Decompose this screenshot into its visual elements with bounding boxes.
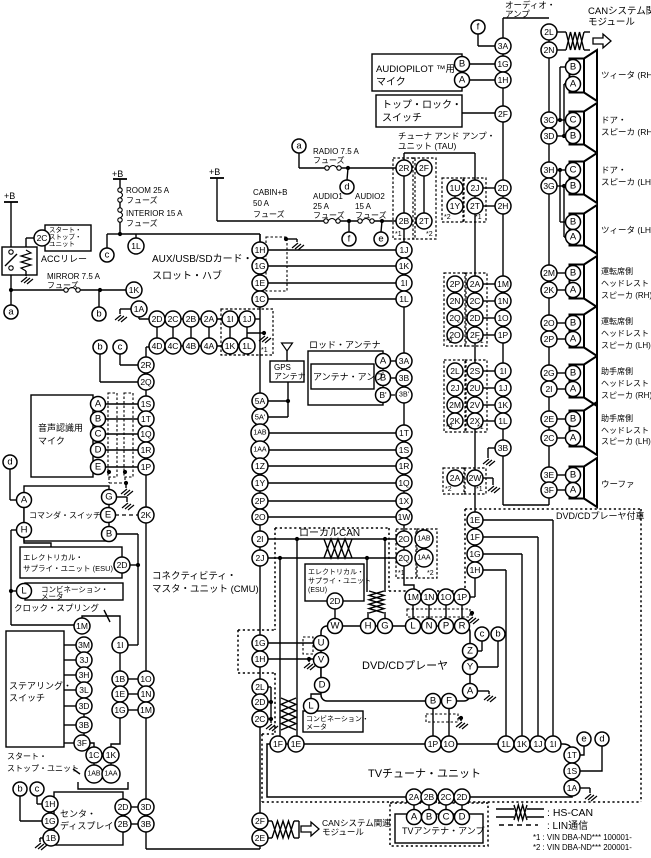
svg-text:ステアリング・: ステアリング・ — [9, 680, 72, 691]
svg-text:2P: 2P — [255, 496, 266, 506]
svg-text:2C: 2C — [544, 433, 555, 443]
svg-text:C: C — [95, 429, 102, 440]
svg-text:2R: 2R — [399, 163, 410, 173]
svg-text:: LIN通信: : LIN通信 — [547, 820, 588, 832]
svg-text:2B: 2B — [399, 216, 410, 226]
svg-text:B': B' — [379, 390, 387, 400]
svg-text:フューズ: フューズ — [355, 210, 387, 220]
svg-text:2S: 2S — [470, 366, 481, 376]
svg-text:1S: 1S — [399, 445, 410, 455]
svg-text:ドア・: ドア・ — [601, 165, 627, 175]
svg-text:音声認識用: 音声認識用 — [38, 422, 83, 433]
svg-text:2D: 2D — [498, 183, 509, 193]
svg-text:1Y: 1Y — [450, 201, 461, 211]
svg-text:4D: 4D — [152, 341, 163, 351]
svg-text:15 A: 15 A — [355, 202, 372, 211]
svg-text:2Q: 2Q — [140, 377, 152, 387]
svg-text:1M: 1M — [140, 705, 152, 715]
svg-text:D: D — [319, 680, 326, 691]
svg-text:アンテナ・アンプ: アンテナ・アンプ — [313, 372, 384, 382]
svg-text:*1: *1 — [477, 338, 484, 345]
svg-text:フューズ: フューズ — [126, 195, 158, 205]
svg-text:b: b — [96, 309, 101, 320]
svg-text:1O: 1O — [440, 592, 452, 602]
svg-text:1P: 1P — [141, 462, 152, 472]
svg-text:1C: 1C — [89, 750, 100, 760]
svg-text:2A: 2A — [470, 279, 481, 289]
svg-text:3D: 3D — [141, 802, 152, 812]
svg-text:2A: 2A — [204, 314, 215, 324]
svg-text:G: G — [381, 621, 388, 632]
svg-text:c: c — [480, 629, 485, 640]
svg-text:マイク: マイク — [376, 76, 406, 88]
svg-text:B: B — [430, 696, 436, 707]
svg-text:2D: 2D — [118, 802, 129, 812]
svg-text:2D: 2D — [117, 560, 128, 570]
svg-text:3M: 3M — [78, 640, 90, 650]
svg-text:メータ: メータ — [306, 722, 327, 731]
svg-text:2K: 2K — [141, 510, 152, 520]
svg-text:3G: 3G — [543, 181, 554, 191]
svg-text:ウーファ: ウーファ — [601, 479, 635, 489]
svg-text:A: A — [21, 495, 28, 506]
svg-text:c: c — [118, 342, 123, 353]
svg-text:2C: 2C — [441, 792, 452, 802]
svg-text:50 A: 50 A — [253, 199, 270, 208]
svg-text:1AA: 1AA — [253, 447, 267, 454]
svg-text:2O: 2O — [543, 318, 555, 328]
svg-text:: HS-CAN: : HS-CAN — [547, 807, 593, 819]
svg-text:フューズ: フューズ — [126, 218, 158, 228]
svg-text:2J: 2J — [451, 383, 460, 393]
svg-text:マスタ・ユニット (CMU): マスタ・ユニット (CMU) — [152, 584, 259, 595]
svg-text:1G: 1G — [469, 549, 480, 559]
svg-text:トップ・ロック・: トップ・ロック・ — [382, 99, 462, 111]
svg-text:1G: 1G — [114, 705, 125, 715]
svg-text:エレクトリカル・: エレクトリカル・ — [308, 568, 364, 576]
svg-text:3L: 3L — [79, 685, 89, 695]
svg-text:コンビネーション・: コンビネーション・ — [306, 714, 369, 723]
svg-text:C: C — [570, 165, 577, 176]
svg-text:1I: 1I — [400, 278, 407, 288]
svg-text:1E: 1E — [255, 278, 266, 288]
svg-text:ROOM 25 A: ROOM 25 A — [126, 186, 170, 195]
svg-text:B: B — [426, 812, 432, 823]
svg-text:助手席側: 助手席側 — [601, 413, 633, 423]
svg-text:1T: 1T — [399, 428, 409, 438]
svg-text:1I: 1I — [226, 314, 233, 324]
svg-text:*2: *2 — [444, 214, 451, 221]
svg-text:W: W — [331, 621, 340, 632]
svg-text:1E: 1E — [291, 739, 302, 749]
svg-text:RADIO 7.5 A: RADIO 7.5 A — [313, 147, 359, 156]
svg-text:3E: 3E — [544, 470, 555, 480]
svg-text:L: L — [410, 621, 415, 632]
svg-text:A: A — [95, 399, 102, 410]
svg-text:b: b — [97, 342, 102, 353]
svg-text:3F: 3F — [77, 738, 87, 748]
svg-text:ヘッドレスト・: ヘッドレスト・ — [601, 329, 651, 338]
svg-text:+B: +B — [4, 191, 15, 201]
svg-text:*2: *2 — [426, 231, 433, 238]
svg-text:フューズ: フューズ — [313, 210, 345, 220]
svg-text:MIRROR 7.5 A: MIRROR 7.5 A — [47, 272, 101, 281]
svg-text:スロット・ハブ: スロット・ハブ — [152, 269, 222, 282]
svg-text:1I: 1I — [116, 640, 123, 650]
svg-text:A: A — [570, 285, 577, 296]
svg-text:2T: 2T — [419, 216, 429, 226]
svg-text:2A: 2A — [409, 792, 420, 802]
svg-text:C: C — [443, 812, 450, 823]
svg-text:*2: *2 — [445, 486, 452, 493]
svg-text:エレクトリカル・: エレクトリカル・ — [23, 553, 83, 562]
svg-text:*2: *2 — [427, 570, 434, 577]
svg-text:*1: *1 — [476, 486, 483, 493]
svg-text:H: H — [365, 621, 372, 632]
svg-text:B: B — [570, 131, 576, 142]
svg-text:B: B — [570, 368, 576, 379]
svg-text:助手席側: 助手席側 — [601, 366, 633, 376]
svg-text:c: c — [35, 784, 40, 795]
svg-text:スタート・: スタート・ — [7, 752, 47, 761]
svg-text:A: A — [459, 75, 466, 86]
svg-text:1F: 1F — [273, 739, 283, 749]
svg-text:1I: 1I — [549, 739, 556, 749]
svg-text:1H: 1H — [45, 799, 56, 809]
svg-text:DVD/CDプレーヤ: DVD/CDプレーヤ — [362, 659, 448, 672]
svg-text:1S: 1S — [141, 399, 152, 409]
svg-text:1AA: 1AA — [104, 771, 118, 778]
svg-text:サプライ・ユニット (ESU): サプライ・ユニット (ESU) — [23, 564, 114, 573]
svg-text:クロック・スプリング: クロック・スプリング — [14, 603, 99, 613]
svg-text:1P: 1P — [457, 592, 468, 602]
svg-text:2F: 2F — [255, 816, 265, 826]
svg-text:1AA: 1AA — [417, 555, 431, 562]
svg-text:2P: 2P — [544, 334, 555, 344]
svg-text:1G: 1G — [497, 59, 508, 69]
svg-text:2H: 2H — [498, 201, 509, 211]
svg-text:4A: 4A — [204, 341, 215, 351]
svg-text:H: H — [21, 525, 28, 536]
svg-text:ヘッドレスト・: ヘッドレスト・ — [601, 426, 651, 435]
svg-text:1L: 1L — [498, 416, 508, 426]
svg-text:4B: 4B — [186, 341, 197, 351]
svg-text:フューズ: フューズ — [47, 280, 79, 290]
svg-text:2I: 2I — [256, 534, 263, 544]
svg-text:2Q: 2Q — [449, 313, 461, 323]
svg-text:1P: 1P — [428, 739, 439, 749]
svg-text:B: B — [570, 414, 576, 425]
svg-text:ストップ・ユニット: ストップ・ユニット — [7, 764, 79, 773]
svg-text:2N: 2N — [450, 296, 461, 306]
svg-text:1O: 1O — [497, 313, 509, 323]
svg-text:1M: 1M — [76, 621, 88, 631]
svg-text:E: E — [95, 462, 101, 473]
svg-text:3H: 3H — [79, 670, 90, 680]
svg-text:1P: 1P — [498, 330, 509, 340]
svg-text:AUDIO2: AUDIO2 — [355, 192, 385, 201]
svg-text:スピーカ (RH): スピーカ (RH) — [601, 391, 651, 400]
svg-text:1H: 1H — [255, 654, 266, 664]
svg-text:1T: 1T — [141, 414, 151, 424]
svg-text:1L: 1L — [242, 341, 252, 351]
svg-text:E: E — [105, 510, 111, 521]
svg-text:*2 : VIN DBA-ND*** 200001-: *2 : VIN DBA-ND*** 200001- — [533, 843, 632, 852]
svg-text:2D: 2D — [470, 313, 481, 323]
svg-text:B: B — [570, 217, 576, 228]
svg-text:コマンダ・スイッチ: コマンダ・スイッチ — [29, 510, 101, 520]
svg-text:1G: 1G — [254, 638, 265, 648]
svg-text:4C: 4C — [168, 341, 179, 351]
svg-text:ローカルCAN: ローカルCAN — [299, 527, 360, 539]
svg-text:3F: 3F — [544, 485, 554, 495]
svg-text:3A: 3A — [399, 356, 410, 366]
svg-text:CANシステム関連: CANシステム関連 — [588, 5, 651, 17]
svg-text:2W: 2W — [469, 473, 482, 483]
svg-text:スイッチ: スイッチ — [9, 693, 45, 703]
svg-text:2I: 2I — [545, 384, 552, 394]
svg-text:2J: 2J — [471, 183, 480, 193]
svg-text:1K: 1K — [399, 261, 410, 271]
svg-text:B: B — [95, 414, 101, 425]
svg-text:a: a — [296, 141, 302, 152]
svg-text:2R: 2R — [141, 360, 152, 370]
svg-text:1L: 1L — [131, 241, 141, 251]
svg-text:2Q: 2Q — [398, 553, 410, 563]
svg-text:1Z: 1Z — [255, 461, 265, 471]
svg-text:C: C — [570, 115, 577, 126]
svg-text:ディスプレイ: ディスプレイ — [60, 820, 113, 831]
svg-text:F: F — [446, 696, 452, 707]
svg-text:1F: 1F — [470, 532, 480, 542]
svg-text:1K: 1K — [225, 341, 236, 351]
svg-text:ツィータ (RH): ツィータ (RH) — [601, 70, 651, 80]
svg-text:2E: 2E — [544, 414, 555, 424]
svg-text:1M: 1M — [497, 279, 509, 289]
svg-text:d: d — [599, 734, 604, 745]
svg-text:スピーカ (LH): スピーカ (LH) — [601, 341, 651, 350]
svg-text:*1: *1 — [398, 570, 405, 577]
svg-text:2D: 2D — [457, 792, 468, 802]
svg-text:AUDIOPILOT ™用: AUDIOPILOT ™用 — [376, 64, 455, 75]
svg-text:P: P — [443, 621, 449, 632]
svg-text:5A': 5A' — [255, 413, 266, 422]
svg-text:1E: 1E — [115, 689, 126, 699]
svg-text:GPS: GPS — [274, 363, 291, 372]
svg-text:2M: 2M — [543, 268, 555, 278]
svg-text:フューズ: フューズ — [313, 155, 345, 165]
svg-text:1R: 1R — [141, 445, 152, 455]
svg-text:2D: 2D — [152, 314, 163, 324]
svg-text:1K: 1K — [106, 750, 117, 760]
svg-text:L: L — [21, 586, 26, 597]
svg-text:2T: 2T — [470, 201, 480, 211]
svg-text:A: A — [467, 686, 474, 697]
svg-text:3D: 3D — [79, 701, 90, 711]
svg-text:f: f — [477, 22, 480, 33]
svg-text:ユニット (TAU): ユニット (TAU) — [398, 141, 457, 151]
svg-text:(ESU): (ESU) — [308, 587, 327, 594]
svg-text:L: L — [308, 701, 313, 712]
svg-text:1O: 1O — [140, 674, 152, 684]
svg-text:B: B — [459, 59, 465, 70]
svg-text:1Q: 1Q — [140, 429, 152, 439]
svg-text:2U: 2U — [470, 383, 481, 393]
svg-text:3B: 3B — [141, 819, 152, 829]
svg-text:センタ・: センタ・ — [60, 809, 96, 819]
svg-text:1E: 1E — [470, 515, 481, 525]
svg-text:ACCリレー: ACCリレー — [41, 254, 87, 264]
svg-text:B: B — [570, 62, 576, 73]
svg-text:2M: 2M — [449, 400, 461, 410]
svg-text:INTERIOR 15 A: INTERIOR 15 A — [126, 209, 183, 218]
svg-text:メータ: メータ — [41, 592, 64, 601]
svg-text:1J: 1J — [243, 314, 252, 324]
svg-text:A: A — [570, 433, 577, 444]
svg-text:R: R — [459, 621, 466, 632]
svg-text:b: b — [17, 784, 22, 795]
svg-text:*1: *1 — [477, 424, 484, 431]
svg-text:1U: 1U — [450, 183, 461, 193]
svg-text:Y: Y — [467, 662, 474, 673]
svg-text:V: V — [318, 655, 325, 666]
svg-text:2P: 2P — [450, 279, 461, 289]
svg-text:*1: *1 — [261, 347, 268, 354]
svg-text:2B: 2B — [424, 792, 435, 802]
svg-text:3H: 3H — [544, 165, 555, 175]
svg-text:1L: 1L — [501, 739, 511, 749]
svg-text:2F: 2F — [498, 109, 508, 119]
svg-text:2C: 2C — [37, 233, 48, 243]
svg-text:1N: 1N — [498, 296, 509, 306]
svg-text:マイク: マイク — [38, 436, 65, 446]
svg-text:スピーカ (LH): スピーカ (LH) — [601, 437, 651, 446]
svg-text:1K: 1K — [129, 285, 140, 295]
svg-text:1A: 1A — [134, 304, 145, 314]
svg-text:ロッド・アンテナ: ロッド・アンテナ — [309, 340, 381, 350]
svg-text:e: e — [378, 234, 383, 245]
svg-text:D: D — [95, 445, 102, 456]
svg-text:5A: 5A — [255, 396, 266, 406]
svg-text:1J: 1J — [534, 739, 543, 749]
svg-text:2C: 2C — [255, 714, 266, 724]
svg-text:2L: 2L — [544, 27, 554, 37]
svg-text:B: B — [570, 470, 576, 481]
svg-text:+B: +B — [209, 167, 220, 177]
svg-text:AUDIO1: AUDIO1 — [313, 192, 343, 201]
svg-text:AUX/USB/SDカード・: AUX/USB/SDカード・ — [152, 253, 253, 265]
svg-text:G: G — [105, 492, 112, 503]
svg-text:1S: 1S — [567, 766, 578, 776]
svg-text:3C: 3C — [544, 115, 555, 125]
svg-text:DVD/CDプレーヤ付車: DVD/CDプレーヤ付車 — [556, 510, 645, 521]
svg-text:2C: 2C — [470, 296, 481, 306]
svg-text:モジュール: モジュール — [588, 17, 635, 28]
svg-text:2G: 2G — [543, 368, 554, 378]
svg-text:ツィータ (LH): ツィータ (LH) — [601, 225, 651, 235]
svg-text:運転席側: 運転席側 — [601, 316, 633, 326]
svg-text:f: f — [348, 234, 351, 245]
svg-text:2L: 2L — [450, 366, 460, 376]
svg-text:3B: 3B — [79, 720, 90, 730]
svg-text:ドア・: ドア・ — [601, 115, 627, 125]
svg-text:A: A — [380, 356, 387, 367]
svg-text:2O: 2O — [254, 512, 266, 522]
svg-text:1R: 1R — [399, 461, 410, 471]
svg-text:2V: 2V — [470, 400, 481, 410]
svg-text:スピーカ (RH): スピーカ (RH) — [601, 127, 651, 137]
svg-text:1W: 1W — [398, 512, 411, 522]
svg-text:B: B — [570, 268, 576, 279]
svg-text:A: A — [570, 485, 577, 496]
svg-text:CABIN+B: CABIN+B — [253, 188, 287, 197]
svg-text:1J: 1J — [400, 245, 409, 255]
svg-text:運転席側: 運転席側 — [601, 266, 633, 276]
svg-text:スピーカ (LH): スピーカ (LH) — [601, 177, 651, 187]
svg-text:スタート・: スタート・ — [49, 225, 82, 234]
svg-text:1N: 1N — [141, 689, 152, 699]
svg-text:2D: 2D — [330, 596, 341, 606]
svg-text:1K: 1K — [517, 739, 528, 749]
svg-text:a: a — [8, 307, 14, 318]
svg-text:1G: 1G — [44, 816, 55, 826]
svg-text:e: e — [581, 734, 586, 745]
svg-text:2N: 2N — [544, 45, 555, 55]
svg-text:ストップ・: ストップ・ — [49, 233, 82, 241]
svg-text:1H: 1H — [255, 245, 266, 255]
svg-text:1Q: 1Q — [398, 478, 410, 488]
svg-text:1O: 1O — [443, 739, 455, 749]
svg-text:コネクティビティ・: コネクティビティ・ — [152, 571, 236, 582]
svg-text:1AB: 1AB — [253, 430, 267, 437]
svg-text:スイッチ: スイッチ — [382, 112, 422, 124]
svg-text:2O: 2O — [398, 534, 410, 544]
svg-text:2L: 2L — [255, 682, 265, 692]
svg-text:3B': 3B' — [399, 392, 409, 399]
svg-text:A: A — [570, 79, 577, 90]
svg-text:2B: 2B — [186, 314, 197, 324]
svg-text:B: B — [570, 318, 576, 329]
svg-text:3A: 3A — [498, 41, 509, 51]
svg-text:1N: 1N — [424, 592, 435, 602]
svg-text:N: N — [426, 621, 433, 632]
svg-text:3B: 3B — [498, 443, 509, 453]
svg-text:1C: 1C — [255, 294, 266, 304]
svg-text:アンテナ: アンテナ — [274, 372, 306, 381]
svg-text:ヘッドレスト・: ヘッドレスト・ — [601, 379, 651, 388]
svg-text:1X: 1X — [399, 496, 410, 506]
svg-text:3D: 3D — [544, 131, 555, 141]
svg-text:A: A — [570, 334, 577, 345]
svg-text:1L: 1L — [399, 294, 409, 304]
svg-text:*1: *1 — [395, 231, 402, 238]
svg-text:3B: 3B — [399, 373, 410, 383]
svg-text:2F: 2F — [419, 163, 429, 173]
svg-text:1H: 1H — [498, 75, 509, 85]
svg-text:A: A — [411, 812, 418, 823]
svg-text:D: D — [459, 812, 466, 823]
svg-text:*2: *2 — [446, 338, 453, 345]
svg-text:スピーカ (RH): スピーカ (RH) — [601, 291, 651, 300]
svg-text:U: U — [318, 638, 325, 649]
svg-text:Z: Z — [467, 646, 473, 657]
svg-text:d: d — [344, 182, 349, 193]
svg-text:2C: 2C — [168, 314, 179, 324]
svg-text:2B: 2B — [118, 819, 129, 829]
svg-text:*1: *1 — [475, 214, 482, 221]
svg-text:+B: +B — [112, 169, 123, 179]
svg-text:1H: 1H — [470, 565, 481, 575]
